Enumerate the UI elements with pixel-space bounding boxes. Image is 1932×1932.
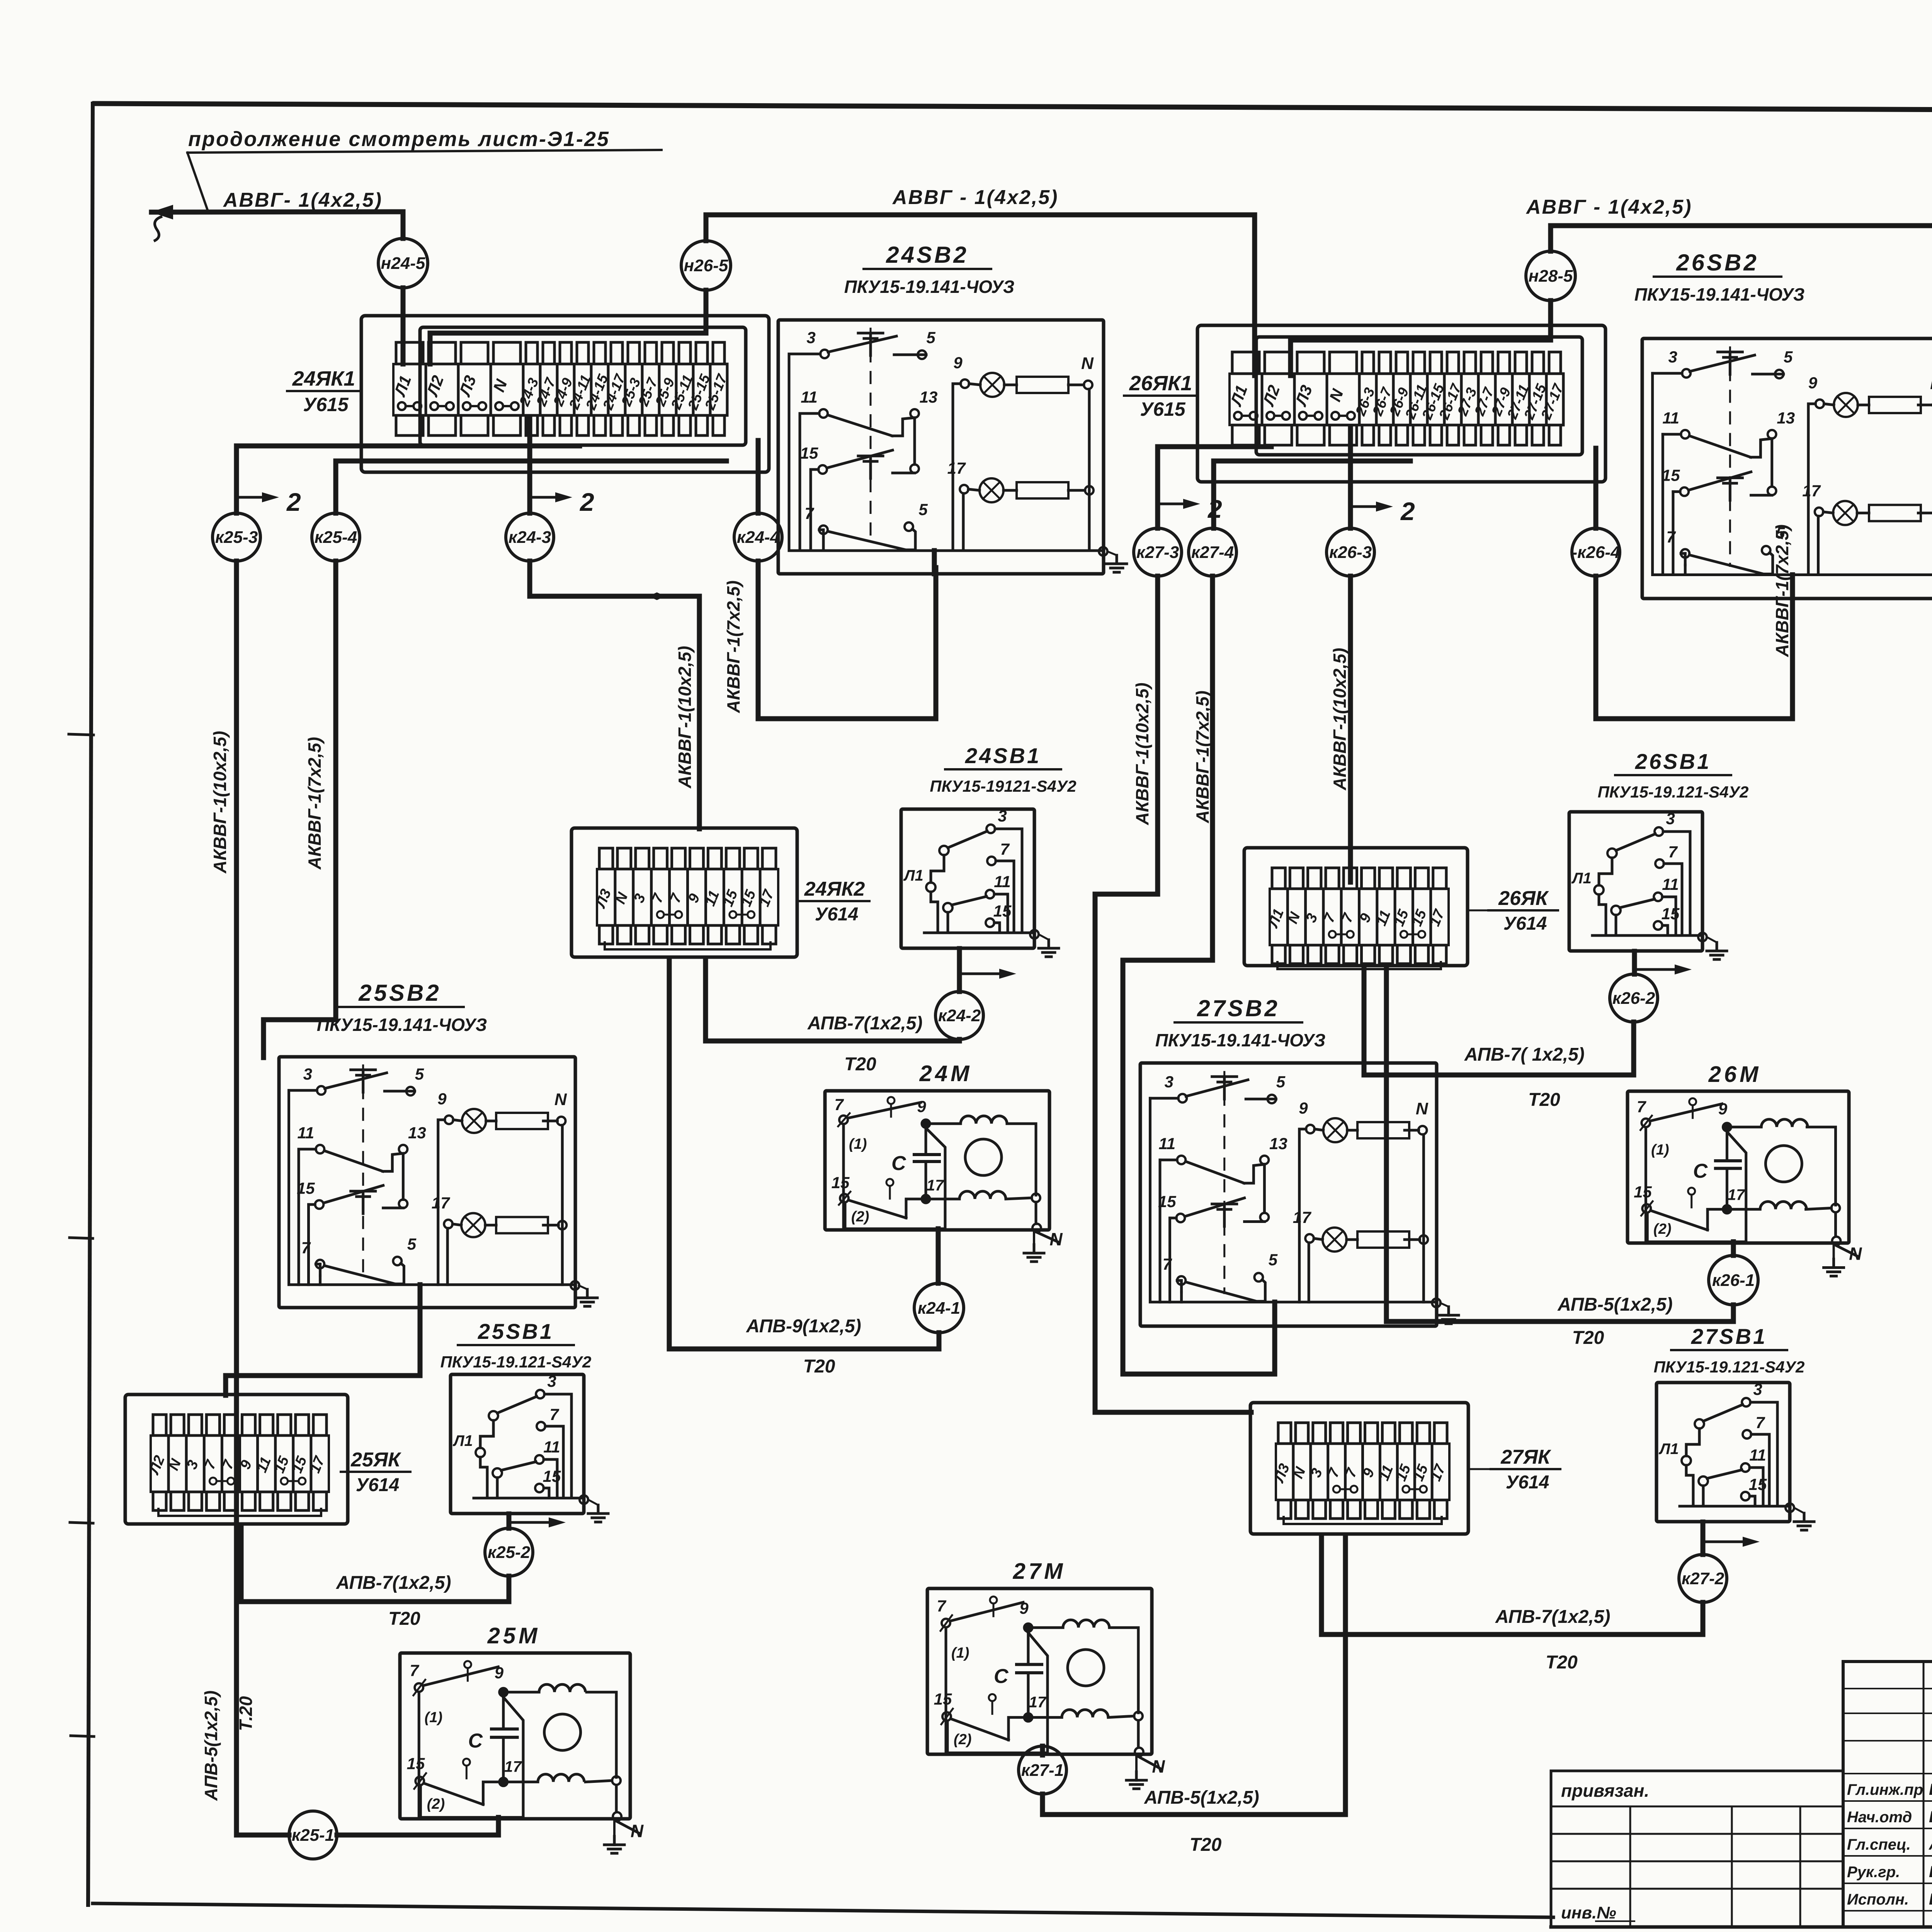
svg-text:Рук.гр.: Рук.гр. bbox=[1847, 1864, 1900, 1881]
wire к27-4 down to 27SB2 bottom bbox=[1123, 576, 1275, 1374]
bottom bus 27SB1 and ground bbox=[1680, 1505, 1790, 1508]
switch box 26SB2 outline bbox=[1642, 338, 1932, 599]
svg-text:(2): (2) bbox=[1653, 1221, 1671, 1237]
wire к25-3 down to АПВ-5 run bbox=[234, 561, 239, 1835]
svg-text:9: 9 bbox=[917, 1097, 926, 1116]
svg-text:N: N bbox=[631, 1821, 644, 1841]
svg-text:Т20: Т20 bbox=[803, 1356, 835, 1377]
bottom bus 24SB2 and ground bbox=[1099, 547, 1107, 556]
svg-text:N: N bbox=[1849, 1244, 1862, 1264]
svg-text:Л1: Л1 bbox=[1571, 870, 1592, 887]
motor 26М blade upper bbox=[1651, 1104, 1722, 1121]
contact 27SB2.13 bbox=[1260, 1156, 1269, 1164]
cable marker к25-4 bbox=[312, 513, 360, 561]
motor 27М pin lower bbox=[989, 1694, 996, 1701]
blade pivots 27SB1 bbox=[1695, 1419, 1704, 1429]
motor 25М ground bbox=[613, 1821, 616, 1836]
link 27SB2 13 down bbox=[1263, 1164, 1266, 1213]
contact 26SB1.3 bbox=[1655, 827, 1663, 836]
lamp circuit 25SB2 lower: terminal 17 bbox=[444, 1220, 452, 1228]
svg-text:АКВВГ-1(10х2,5): АКВВГ-1(10х2,5) bbox=[1132, 683, 1152, 825]
svg-text:к26-3: к26-3 bbox=[1329, 543, 1372, 562]
contact 27SB2.15 bbox=[1170, 1217, 1177, 1219]
wire stubs below 24ЯК2 bbox=[599, 925, 613, 944]
contact 27SB1.15 bbox=[1741, 1492, 1750, 1500]
box bottom stub 24SB2 bbox=[932, 551, 937, 574]
svg-text:АВВГ - 1(4х2,5): АВВГ - 1(4х2,5) bbox=[892, 186, 1058, 209]
svg-text:11: 11 bbox=[994, 872, 1011, 891]
lamp circuit 26SB2 lower: terminal 17 bbox=[1815, 508, 1823, 516]
svg-text:АКВВГ-1(10х2,5): АКВВГ-1(10х2,5) bbox=[210, 731, 230, 874]
svg-text:C: C bbox=[994, 1665, 1009, 1687]
contact bus 25SB2 left bbox=[289, 1090, 575, 1285]
svg-text:7: 7 bbox=[301, 1238, 311, 1257]
terminal row 26ЯК bbox=[1270, 889, 1449, 945]
switch blade 27SB2 3-5 bbox=[1186, 1080, 1248, 1097]
svg-text:(2): (2) bbox=[427, 1796, 445, 1812]
svg-text:к25-2: к25-2 bbox=[488, 1543, 531, 1562]
svg-text:15: 15 bbox=[934, 1690, 952, 1708]
motor 25М contact 15 bbox=[415, 1777, 424, 1785]
branch arrow 2 on к25-3 wire bbox=[236, 496, 267, 499]
internal wiring 25SB1 bbox=[480, 1420, 493, 1448]
svg-text:Б.Левитан: Б.Левитан bbox=[1929, 1780, 1932, 1798]
svg-text:7: 7 bbox=[1163, 1255, 1172, 1273]
svg-text:5: 5 bbox=[926, 328, 935, 347]
svg-text:13: 13 bbox=[920, 388, 938, 406]
svg-text:3: 3 bbox=[1668, 348, 1677, 366]
svg-text:C: C bbox=[468, 1730, 483, 1752]
switch blade 26SB2 15 bbox=[1689, 472, 1751, 490]
switch blade 26SB2 3-5 bbox=[1690, 355, 1755, 371]
svg-text:7: 7 bbox=[1755, 1413, 1765, 1432]
svg-text:(1): (1) bbox=[951, 1645, 969, 1661]
motor 26М main winding bbox=[1731, 1126, 1761, 1128]
svg-text:13: 13 bbox=[1269, 1134, 1287, 1153]
motor box 25М outline bbox=[400, 1653, 630, 1819]
inner bottom bus 26ЯК bbox=[1277, 962, 1441, 969]
svg-text:2: 2 bbox=[1400, 497, 1415, 526]
lamp circuit 27SB2 upper: terminal 9 bbox=[1306, 1125, 1315, 1133]
wire АПВ-7 26ЯК to к26-2 bbox=[1364, 966, 1634, 1075]
motor 25М blade lower bbox=[424, 1783, 483, 1804]
svg-text:АПВ-9(1х2,5): АПВ-9(1х2,5) bbox=[746, 1316, 861, 1337]
svg-text:11: 11 bbox=[1662, 875, 1679, 893]
motor 24М N node bbox=[1035, 1202, 1037, 1224]
svg-text:н26-5: н26-5 bbox=[684, 256, 728, 275]
svg-text:3: 3 bbox=[1165, 1073, 1173, 1091]
motor 25М contact 7 bbox=[415, 1683, 423, 1692]
svg-text:(2): (2) bbox=[851, 1209, 869, 1225]
lamp lower feed 27SB2 bbox=[1308, 1243, 1310, 1302]
wire 24SB1 to к24-2 with arrow bbox=[957, 949, 962, 992]
svg-text:-к26-4: -к26-4 bbox=[1571, 543, 1620, 562]
contact 27SB1.3 bbox=[1742, 1398, 1750, 1406]
svg-text:Т20: Т20 bbox=[1190, 1835, 1222, 1855]
dashed actuator line 25SB2 bbox=[362, 1065, 364, 1277]
switch blade 25SB2 11-13 bbox=[324, 1151, 383, 1171]
motor 24М bottom stub bbox=[936, 1229, 941, 1230]
svg-text:24ЯК1: 24ЯК1 bbox=[292, 367, 355, 390]
motor 27М inner bus bbox=[946, 1628, 1048, 1753]
link 25SB2 13 down bbox=[402, 1153, 405, 1199]
wire к26-3 down to 26ЯК bbox=[1348, 576, 1353, 882]
svg-text:17: 17 bbox=[432, 1194, 450, 1212]
motor 26М ground bbox=[1833, 1246, 1835, 1259]
svg-text:к25-4: к25-4 bbox=[315, 528, 357, 547]
wire 24ЯК1 to к24-4 bbox=[756, 440, 761, 513]
svg-text:ПКУ15-19.141-ЧОУЗ: ПКУ15-19.141-ЧОУЗ bbox=[844, 277, 1015, 297]
svg-text:25М: 25М bbox=[487, 1623, 541, 1648]
svg-text:АКВВГ-1(10х2,5): АКВВГ-1(10х2,5) bbox=[675, 646, 695, 789]
wire stubs above 24ЯК1 bbox=[396, 342, 423, 364]
wire trunk АВВГ-1 26ЯК1 to 28ЯК1 bbox=[1551, 226, 1932, 378]
svg-text:17: 17 bbox=[1293, 1208, 1311, 1226]
contact 25SB2.5b bbox=[393, 1257, 401, 1265]
link 24SB2 13 down bbox=[913, 418, 916, 464]
resistor 26SB2 upper bbox=[1869, 397, 1921, 413]
lamp HL 27SB2 lower bbox=[1323, 1228, 1347, 1252]
svg-text:11: 11 bbox=[1662, 409, 1679, 427]
svg-text:11: 11 bbox=[298, 1124, 315, 1142]
svg-text:Исполн.: Исполн. bbox=[1847, 1891, 1909, 1908]
cable marker к24-1 bbox=[914, 1283, 964, 1333]
lamp circuit 27SB2 lower: terminal 17 bbox=[1305, 1234, 1314, 1243]
svg-text:к27-4: к27-4 bbox=[1191, 543, 1234, 562]
lamp HL 24SB2 upper bbox=[980, 373, 1004, 397]
svg-text:Т20: Т20 bbox=[1546, 1652, 1578, 1673]
svg-text:27М: 27М bbox=[1013, 1559, 1066, 1584]
contact 25SB1.7 bbox=[537, 1422, 545, 1430]
contact 24SB1.3 bbox=[986, 825, 995, 833]
terminal N 27SB2 bbox=[1405, 1129, 1418, 1132]
wire 26ЯК1 to к26-3 bbox=[1348, 427, 1353, 528]
motor 27М blade upper bbox=[951, 1602, 1023, 1621]
jumper links 24ЯК2 bbox=[657, 911, 664, 918]
lamp circuit 24SB2 upper: terminal 9 bbox=[961, 379, 969, 388]
contact 24SB1.7 bbox=[987, 857, 996, 865]
svg-text:11: 11 bbox=[1749, 1446, 1766, 1464]
bottom bus 25SB1 and ground bbox=[474, 1497, 584, 1500]
svg-text:15: 15 bbox=[407, 1754, 425, 1772]
svg-text:Л1: Л1 bbox=[452, 1432, 473, 1449]
svg-text:11: 11 bbox=[801, 388, 818, 406]
svg-text:АКВВГ-1(10х2,5): АКВВГ-1(10х2,5) bbox=[1330, 648, 1350, 791]
svg-text:У614: У614 bbox=[356, 1475, 400, 1495]
contact 24SB2.15 bbox=[811, 468, 818, 471]
wire stubs above 24ЯК2 bbox=[599, 848, 613, 869]
svg-text:5: 5 bbox=[1276, 1073, 1286, 1091]
contact 27SB2.5 bbox=[1267, 1095, 1276, 1103]
svg-text:C: C bbox=[1693, 1160, 1708, 1182]
svg-text:к25-1: к25-1 bbox=[292, 1826, 334, 1845]
svg-text:7: 7 bbox=[410, 1662, 419, 1680]
cable marker к26-3 bbox=[1327, 528, 1374, 576]
lamp circuit 24SB2 lower: terminal 17 bbox=[960, 485, 968, 493]
contact 26SB1.15 bbox=[1654, 921, 1662, 930]
switch blade 25SB2 3-5 bbox=[325, 1073, 386, 1088]
motor 26М blade lower bbox=[1651, 1211, 1708, 1230]
wire 24ЯК1 exit to к25-4 bbox=[336, 461, 726, 513]
motor 26М contact 15 bbox=[1642, 1204, 1651, 1213]
jumper links 25ЯК bbox=[209, 1478, 216, 1485]
motor 25М bottom stub bbox=[496, 1817, 501, 1819]
wire 26ЯК1 exit to к27-4 bbox=[1214, 461, 1410, 528]
blade pivots 24SB1 bbox=[939, 846, 949, 855]
contact 25SB2.3 bbox=[289, 1089, 317, 1092]
wire к24-4 down to 24SB2 bottom bbox=[758, 561, 936, 719]
terminal row 26ЯК1 bbox=[1230, 374, 1563, 425]
wire 24ЯК1 to к24-3 bbox=[527, 417, 532, 513]
motor 27М ground bbox=[1135, 1757, 1138, 1772]
svg-text:к24-3: к24-3 bbox=[509, 528, 551, 547]
wire stubs below 24ЯК1 bbox=[396, 415, 423, 435]
motor 24М terminal 17 bbox=[922, 1195, 930, 1203]
wire АПВ-5 27ЯК to к27-1 bbox=[1043, 1535, 1345, 1815]
motor 24М ground bbox=[1033, 1232, 1035, 1245]
svg-text:к24-2: к24-2 bbox=[938, 1006, 981, 1025]
lamp feed wires 26SB2 bbox=[1808, 404, 1815, 575]
resistor 25SB2 lower bbox=[496, 1217, 548, 1233]
inner bottom bus 27ЯК bbox=[1284, 1517, 1442, 1524]
svg-text:к25-3: к25-3 bbox=[215, 528, 258, 547]
svg-text:11: 11 bbox=[543, 1438, 560, 1456]
actuator symbol 27SB2 lower bbox=[1212, 1202, 1237, 1205]
svg-text:ПКУ15-19.121-S4У2: ПКУ15-19.121-S4У2 bbox=[1654, 1358, 1805, 1376]
motor 27М N node bbox=[1137, 1721, 1140, 1747]
motor 26М bottom stub bbox=[1731, 1242, 1736, 1243]
wire АПВ-9 24ЯК2 to к24-1 bbox=[669, 958, 939, 1349]
svg-text:26ЯК: 26ЯК bbox=[1498, 887, 1549, 910]
actuator symbol 27SB2 upper bbox=[1212, 1075, 1237, 1078]
svg-text:3: 3 bbox=[806, 328, 815, 347]
motor 26М pin upper bbox=[1689, 1098, 1696, 1105]
wire trunk АВВГ-1 cable to sheet Э1-25 bbox=[151, 212, 403, 238]
motor 24М main winding bbox=[930, 1122, 961, 1125]
motor 27М contact 7 bbox=[942, 1619, 950, 1627]
motor 24М contact 7 bbox=[839, 1116, 848, 1124]
svg-text:11: 11 bbox=[1159, 1134, 1176, 1153]
resistor 27SB2 lower bbox=[1357, 1231, 1409, 1248]
motor 26М bypass wire bbox=[1727, 1132, 1746, 1242]
motor 27М main winding bbox=[1032, 1626, 1063, 1629]
cable marker к27-4 bbox=[1189, 528, 1236, 576]
svg-text:к26-1: к26-1 bbox=[1712, 1271, 1755, 1290]
svg-text:7: 7 bbox=[834, 1095, 844, 1114]
svg-text:Т20: Т20 bbox=[388, 1609, 420, 1629]
contact 27SB2.7 bbox=[1180, 1281, 1183, 1292]
cable marker к25-1 bbox=[289, 1811, 337, 1859]
wire 26ЯК1 to к26-4 bbox=[1594, 448, 1599, 528]
switch blade 24SB2 3-5 bbox=[828, 336, 896, 352]
motor 27М blade lower bbox=[951, 1719, 1009, 1740]
contact 24SB2.5 bbox=[918, 350, 926, 359]
motor 24М rotor circle bbox=[965, 1139, 1002, 1175]
svg-text:ПКУ15-19.121-S4У2: ПКУ15-19.121-S4У2 bbox=[1598, 783, 1749, 801]
contact 27SB2.3 bbox=[1150, 1097, 1179, 1100]
cable marker к27-2 bbox=[1679, 1554, 1727, 1602]
motor 26М terminal 9 bbox=[1723, 1123, 1731, 1131]
svg-text:24SB2: 24SB2 bbox=[886, 242, 968, 268]
contact 26SB1.11 bbox=[1654, 893, 1662, 901]
wire н24-5 to 24ЯК1.Л1 bbox=[401, 288, 406, 364]
contact bus 27SB2 left bbox=[1150, 1098, 1437, 1302]
cable marker к26-4 bbox=[1572, 528, 1620, 576]
motor 24М blade lower bbox=[849, 1200, 906, 1218]
sheet border frame bbox=[95, 104, 1932, 112]
terminal box 25ЯК outline bbox=[125, 1395, 348, 1524]
svg-text:7: 7 bbox=[549, 1405, 559, 1423]
wire 26SB1 to к26-2 with arrow bbox=[1632, 951, 1637, 974]
contact 25SB2.13 bbox=[399, 1145, 407, 1153]
svg-text:26ЯК1: 26ЯК1 bbox=[1129, 372, 1192, 395]
wire АПВ-5 26ЯК to к26-1 bbox=[1386, 966, 1733, 1321]
svg-text:9: 9 bbox=[495, 1664, 504, 1682]
lamp circuit 26SB2 upper: terminal 9 bbox=[1815, 400, 1824, 408]
svg-text:АПВ-7(1х2,5): АПВ-7(1х2,5) bbox=[1495, 1607, 1610, 1627]
jumper links 27ЯК bbox=[1333, 1486, 1340, 1493]
svg-text:АПВ-5(1х2,5): АПВ-5(1х2,5) bbox=[1144, 1787, 1259, 1808]
contact 26SB2.7 bbox=[1684, 553, 1687, 565]
svg-text:Нач.отд: Нач.отд bbox=[1847, 1809, 1912, 1826]
internal wiring 27SB1 bbox=[1686, 1429, 1699, 1456]
svg-text:17: 17 bbox=[1802, 482, 1821, 500]
contact 25SB2.15 bbox=[309, 1203, 315, 1206]
terminal row 25ЯК bbox=[151, 1435, 329, 1492]
switch blade 27SB2 7-5 bbox=[1185, 1282, 1256, 1301]
wire н28-5 into 26ЯК1 routing bbox=[1291, 301, 1551, 376]
svg-text:к27-2: к27-2 bbox=[1682, 1569, 1725, 1588]
lamp HL 27SB2 upper bbox=[1323, 1118, 1347, 1142]
actuator symbol 25SB2 lower bbox=[351, 1190, 376, 1192]
contact 27SB1.7 bbox=[1743, 1430, 1751, 1439]
terminal box 24ЯК1 outline bbox=[361, 316, 769, 472]
svg-text:26SB2: 26SB2 bbox=[1676, 250, 1759, 276]
svg-text:5: 5 bbox=[1784, 348, 1793, 366]
title block: attachment section bbox=[1551, 1771, 1843, 1927]
cable marker к27-1 bbox=[1019, 1746, 1066, 1794]
motor box 26М outline bbox=[1628, 1091, 1849, 1243]
resistor 24SB2 lower bbox=[1017, 482, 1068, 498]
actuator symbol 24SB2 upper bbox=[858, 332, 883, 335]
svg-text:26SB1: 26SB1 bbox=[1635, 749, 1711, 774]
motor 26М terminal 17 bbox=[1723, 1205, 1731, 1214]
motor box 27М outline bbox=[927, 1588, 1152, 1754]
svg-text:Боброва: Боброва bbox=[1929, 1890, 1932, 1908]
svg-text:17: 17 bbox=[1029, 1694, 1047, 1711]
cable marker к25-3 bbox=[213, 513, 260, 561]
box bottom stub 26SB2 bbox=[1790, 575, 1795, 599]
blade pivots 26SB1 bbox=[1607, 849, 1617, 858]
svg-text:АПВ-5(1х2,5): АПВ-5(1х2,5) bbox=[201, 1690, 221, 1801]
svg-text:17: 17 bbox=[1728, 1187, 1745, 1204]
svg-text:9: 9 bbox=[1299, 1099, 1308, 1117]
contact 25SB2.11 bbox=[299, 1148, 316, 1151]
svg-text:Баранова: Баранова bbox=[1929, 1808, 1932, 1826]
switch blade 25SB2 15 bbox=[323, 1185, 383, 1203]
switch box 26SB1 outline bbox=[1569, 812, 1702, 951]
svg-text:к27-3: к27-3 bbox=[1136, 543, 1179, 562]
svg-text:25ЯК: 25ЯК bbox=[350, 1449, 401, 1471]
svg-text:(1): (1) bbox=[849, 1136, 867, 1152]
svg-text:Боброва: Боброва bbox=[1929, 1862, 1932, 1881]
svg-text:3: 3 bbox=[547, 1372, 556, 1390]
svg-text:А.Левитан: А.Левитан bbox=[1929, 1835, 1932, 1853]
svg-text:5: 5 bbox=[407, 1235, 417, 1253]
motor 25М pin lower bbox=[463, 1759, 470, 1765]
cable marker н24-5 bbox=[378, 238, 428, 288]
motor 25М N node bbox=[615, 1786, 618, 1811]
svg-text:5: 5 bbox=[415, 1065, 424, 1083]
switch blade 27SB2 15 bbox=[1185, 1198, 1244, 1216]
bottom bus 27SB2 and ground bbox=[1432, 1299, 1440, 1307]
svg-text:3: 3 bbox=[303, 1065, 312, 1083]
svg-text:(1): (1) bbox=[1651, 1142, 1669, 1158]
lamp feed wires 24SB2 bbox=[953, 384, 961, 551]
motor 24М blade upper bbox=[849, 1102, 921, 1118]
cable marker к25-2 bbox=[485, 1528, 533, 1576]
wire АПВ-7 27ЯК to к27-2 bbox=[1321, 1535, 1703, 1634]
contact 26SB2.13 bbox=[1768, 430, 1776, 439]
contact 26SB2.3 bbox=[1653, 372, 1682, 375]
svg-text:5: 5 bbox=[1269, 1250, 1278, 1269]
svg-text:АПВ-7( 1х2,5): АПВ-7( 1х2,5) bbox=[1464, 1044, 1585, 1065]
svg-text:15: 15 bbox=[297, 1179, 315, 1197]
svg-text:ПКУ15-19.141-ЧОУЗ: ПКУ15-19.141-ЧОУЗ bbox=[1155, 1030, 1326, 1050]
terminal row 27ЯК bbox=[1276, 1444, 1449, 1500]
wire stubs above 26ЯК bbox=[1272, 868, 1285, 889]
svg-text:н24-5: н24-5 bbox=[381, 254, 425, 273]
contact 24SB2.7 bbox=[822, 530, 825, 541]
switch blades 24SB1 bbox=[948, 831, 987, 848]
lamp lower feed 26SB2 bbox=[1817, 516, 1820, 575]
lamp HL 25SB2 upper bbox=[462, 1109, 486, 1133]
motor 27М bypass wire bbox=[1028, 1633, 1048, 1753]
svg-text:У615: У615 bbox=[303, 394, 349, 415]
motor 25М blade upper bbox=[425, 1667, 498, 1685]
svg-text:Т20: Т20 bbox=[1528, 1090, 1560, 1110]
dashed actuator line 26SB2 bbox=[1729, 346, 1731, 567]
wire stubs above 27ЯК bbox=[1278, 1423, 1291, 1444]
switch blade 24SB2 7-5 bbox=[828, 531, 906, 550]
contact 25SB2.7 bbox=[319, 1264, 321, 1276]
lamp feed wires 25SB2 bbox=[438, 1120, 445, 1285]
contact 25SB1.11 bbox=[535, 1455, 544, 1464]
motor 24М aux winding bbox=[930, 1198, 959, 1201]
wire АПВ-5 run to к25-1 and 25М bbox=[236, 1833, 289, 1838]
contact bus 24SB2 left bbox=[789, 354, 1103, 551]
motor 27М aux winding bbox=[1032, 1716, 1062, 1719]
svg-text:АКВВГ-1(7х2,5): АКВВГ-1(7х2,5) bbox=[304, 737, 325, 870]
cable marker к24-4 bbox=[734, 513, 782, 561]
switch box 24SB2 outline bbox=[778, 320, 1104, 574]
actuator symbol 25SB2 upper bbox=[351, 1068, 376, 1071]
contact bus 26SB2 left bbox=[1653, 373, 1932, 575]
svg-text:24SB1: 24SB1 bbox=[965, 743, 1041, 768]
motor 27М contact 15 bbox=[942, 1712, 951, 1721]
svg-text:7: 7 bbox=[1666, 528, 1676, 546]
svg-text:АВВГ- 1(4х2,5): АВВГ- 1(4х2,5) bbox=[223, 189, 383, 211]
motor 25М aux winding bbox=[508, 1781, 538, 1783]
lamp HL 25SB2 lower bbox=[461, 1213, 485, 1237]
svg-text:2: 2 bbox=[286, 488, 301, 516]
wire stubs below 26ЯК1 bbox=[1232, 425, 1259, 445]
svg-text:ПКУ15-19.141-ЧОУЗ: ПКУ15-19.141-ЧОУЗ bbox=[1634, 284, 1805, 304]
svg-text:13: 13 bbox=[1777, 409, 1795, 427]
svg-text:АПВ-7(1х2,5): АПВ-7(1х2,5) bbox=[807, 1013, 922, 1034]
terminal box 27ЯК outline bbox=[1250, 1403, 1468, 1534]
contact 25SB2.5 bbox=[406, 1087, 415, 1095]
